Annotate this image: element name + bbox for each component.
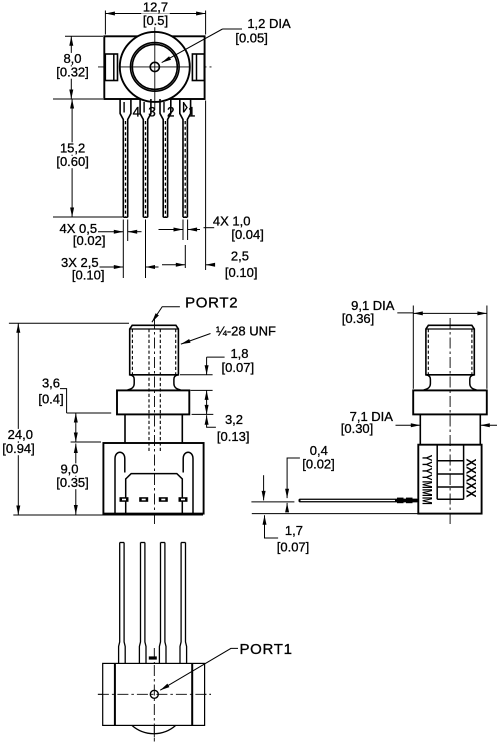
- svg-text:[0.10]: [0.10]: [225, 265, 258, 280]
- svg-text:PORT1: PORT1: [239, 641, 292, 658]
- svg-text:24,0: 24,0: [8, 427, 33, 442]
- svg-text:[0.07]: [0.07]: [277, 540, 310, 555]
- svg-text:YYYYMMM: YYYYMMM: [419, 455, 434, 505]
- svg-text:[0.32]: [0.32]: [56, 65, 89, 80]
- svg-text:[0.94]: [0.94]: [2, 441, 35, 456]
- svg-text:XXXXX: XXXXX: [463, 459, 478, 498]
- svg-text:4: 4: [133, 105, 141, 120]
- svg-text:3,6: 3,6: [42, 376, 60, 391]
- svg-text:[0.07]: [0.07]: [222, 360, 255, 375]
- svg-text:1: 1: [188, 105, 196, 120]
- svg-text:[0.05]: [0.05]: [235, 31, 268, 46]
- svg-text:1,2 DIA: 1,2 DIA: [247, 16, 291, 31]
- svg-text:1,7: 1,7: [285, 523, 303, 538]
- svg-text:2: 2: [167, 105, 175, 120]
- svg-text:1,8: 1,8: [230, 346, 248, 361]
- svg-text:¼-28 UNF: ¼-28 UNF: [216, 324, 276, 339]
- svg-text:[0.60]: [0.60]: [56, 154, 89, 169]
- svg-text:[0.36]: [0.36]: [342, 311, 375, 326]
- svg-text:3,2: 3,2: [225, 412, 243, 427]
- svg-text:[0.10]: [0.10]: [72, 268, 105, 283]
- svg-text:[0.13]: [0.13]: [217, 429, 250, 444]
- svg-text:[0.02]: [0.02]: [73, 233, 106, 248]
- svg-text:[0.35]: [0.35]: [56, 475, 89, 490]
- svg-text:2,5: 2,5: [231, 249, 249, 264]
- svg-text:[0.04]: [0.04]: [231, 227, 264, 242]
- svg-text:3: 3: [148, 105, 156, 120]
- svg-text:PORT2: PORT2: [185, 295, 238, 312]
- svg-text:[0.5]: [0.5]: [143, 13, 168, 28]
- svg-text:[0.4]: [0.4]: [38, 392, 63, 407]
- svg-text:[0.02]: [0.02]: [302, 457, 335, 472]
- svg-text:[0.30]: [0.30]: [341, 421, 374, 436]
